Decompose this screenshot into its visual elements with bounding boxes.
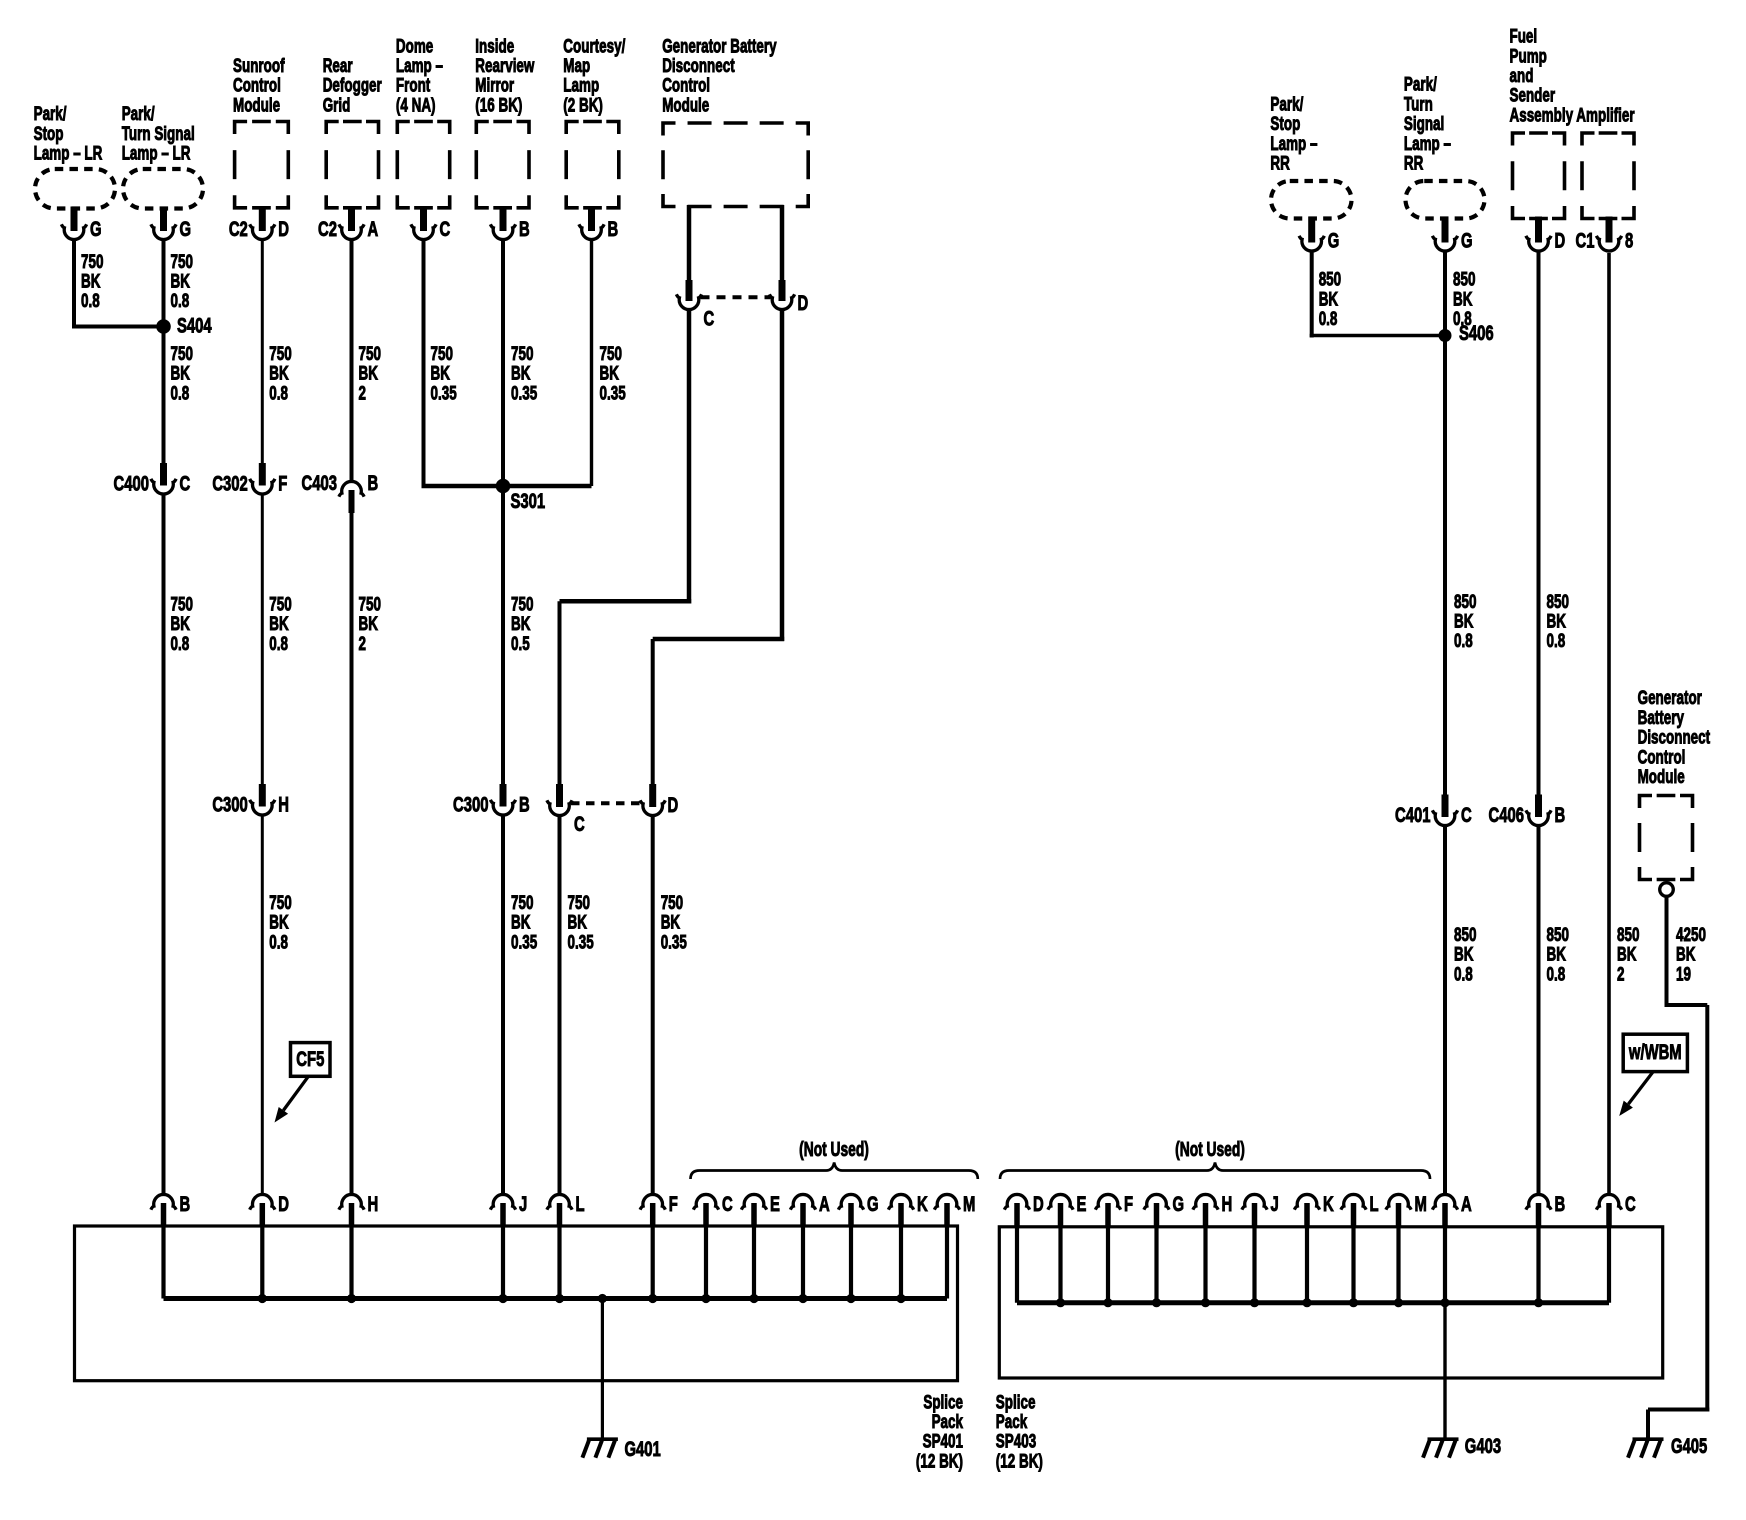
bus junction at pin D — [258, 1294, 267, 1303]
splice pack SP403 internal lead pin M — [1396, 1227, 1400, 1303]
wire: GBDCM pin C run — [687, 310, 692, 604]
dashed connector mating line C-D — [701, 295, 771, 299]
component: Generator Battery Disconnect Control Module (dashed box) — [663, 123, 808, 207]
wire label 850 BK 0.8 — [1319, 268, 1341, 330]
wire: 850 BK 0.8 to splice pack pin A — [1443, 826, 1447, 1194]
svg-text:B: B — [1555, 1191, 1566, 1215]
wire label 750 BK 0.8 — [171, 250, 193, 312]
wire: jog left — [560, 599, 692, 604]
wire: SP403 ground lead to G403 — [1443, 1303, 1446, 1439]
splice pack SP403 internal lead pin K — [1305, 1227, 1309, 1303]
splice pack SP401 internal lead pin D — [260, 1227, 264, 1299]
wire: 750 BK 0.5 below S301 — [501, 486, 505, 786]
splice pack SP401 pin G — [838, 1191, 878, 1227]
svg-text:C400: C400 — [114, 471, 149, 495]
connector C300 pin H — [212, 784, 289, 816]
wire label 750 BK 0.8 — [81, 250, 103, 312]
svg-text:Lamp – LR: Lamp – LR — [122, 142, 191, 164]
wire: 850 BK 2 from Amplifier to splice pack pin C — [1607, 253, 1611, 1194]
svg-text:0.8: 0.8 — [171, 632, 190, 654]
connector pin G of Park/Turn Signal Lamp - RR — [1432, 217, 1472, 253]
wire label 750 BK 0.35 — [511, 343, 537, 405]
svg-text:B: B — [519, 216, 530, 240]
wire: GBDCM pin D lead — [780, 205, 785, 282]
svg-text:0.8: 0.8 — [269, 632, 288, 654]
svg-text:C302: C302 — [212, 471, 247, 495]
bus junction at pin H — [1201, 1298, 1210, 1307]
svg-text:G405: G405 — [1671, 1433, 1707, 1457]
svg-text:L: L — [1370, 1191, 1379, 1215]
svg-text:Module: Module — [662, 94, 709, 116]
svg-text:0.8: 0.8 — [81, 290, 100, 312]
svg-text:0.8: 0.8 — [171, 290, 190, 312]
svg-text:CF5: CF5 — [296, 1046, 324, 1070]
svg-text:8: 8 — [1625, 228, 1633, 252]
ground G403 — [1423, 1439, 1459, 1458]
splice pack SP401 internal lead pin J — [501, 1227, 505, 1299]
svg-text:C: C — [440, 216, 451, 240]
bus junction at pin B — [1534, 1298, 1543, 1307]
svg-text:H: H — [368, 1191, 379, 1215]
splice pack SP403 internal lead pin J — [1252, 1227, 1256, 1303]
splice S406 — [1439, 329, 1452, 342]
component: Inside Rearview Mirror (dashed box) — [476, 122, 529, 208]
component: Courtesy/Map Lamp (dashed box) — [566, 122, 619, 208]
label: Park/Turn Signal Lamp - LR — [122, 103, 195, 165]
connector C1 pin 8 of Amplifier — [1576, 217, 1634, 253]
wire: down to ground G405 — [1646, 1410, 1650, 1438]
wire: 750 BK 2 from Rear Defogger Grid — [350, 241, 354, 481]
wire label 750 BK 0.35 — [600, 343, 626, 405]
connector C403 pin B — [339, 481, 364, 513]
ground G405 — [1628, 1439, 1664, 1458]
label: Generator Battery Disconnect Control Module (right) — [1638, 687, 1711, 788]
svg-text:w/WBM: w/WBM — [1628, 1039, 1682, 1063]
component: Generator Battery Disconnect Control Module (dashed box, right) — [1640, 796, 1693, 880]
bus junction at pin M — [1394, 1298, 1403, 1307]
svg-text:Module: Module — [233, 94, 280, 116]
splice pack SP403 internal lead pin E — [1058, 1227, 1062, 1303]
svg-text:G: G — [1328, 228, 1340, 252]
svg-text:M: M — [1415, 1191, 1427, 1215]
bus junction at pin K — [896, 1294, 905, 1303]
splice pack SP403 internal lead pin B — [1536, 1227, 1540, 1303]
bus junction at pin G — [1152, 1298, 1161, 1307]
splice pack SP401 internal lead pin L — [557, 1227, 561, 1299]
inline connector pin D (GBDCM) — [769, 280, 794, 310]
splice pack SP403 pin A — [1432, 1191, 1471, 1227]
splice pack SP401 internal lead pin F — [651, 1227, 655, 1299]
wire label 750 BK 0.8 — [171, 343, 193, 405]
splice pack SP403 internal lead pin H — [1203, 1227, 1207, 1303]
svg-text:K: K — [917, 1191, 928, 1215]
splice pack SP401 pin C — [693, 1191, 732, 1227]
label: Dome Lamp - Front (4 NA) — [396, 35, 443, 116]
splice pack SP403 pin D — [1004, 1191, 1043, 1227]
splice pack SP401 internal lead pin M — [945, 1227, 949, 1299]
bus junction at pin G — [846, 1294, 855, 1303]
svg-text:B: B — [368, 470, 379, 494]
svg-text:A: A — [819, 1191, 830, 1215]
wire: 750 BK 2 to splice pack pin H — [350, 513, 354, 1194]
splice pack SP403 pin J — [1242, 1191, 1279, 1227]
wire label 4250 BK 19 — [1676, 923, 1706, 985]
svg-text:C406: C406 — [1489, 802, 1524, 826]
component: Rear Defogger Grid (dashed box) — [326, 122, 378, 208]
svg-text:B: B — [608, 216, 619, 240]
wire: horizontal to S404 — [72, 325, 164, 329]
splice pack SP401 pin H — [339, 1191, 378, 1227]
wire: 750 BK 0.8 to splice pack pin B — [162, 495, 166, 1195]
svg-text:2: 2 — [359, 382, 366, 404]
wire: 850 BK 0.8 from Park/Turn Signal Lamp - RR — [1443, 252, 1447, 796]
svg-text:D: D — [798, 290, 809, 314]
connector pin B of Courtesy/Map Lamp — [579, 206, 618, 241]
splice pack SP401 internal lead pin A — [801, 1227, 805, 1299]
svg-text:2: 2 — [359, 632, 366, 654]
connector C302 pin F — [212, 463, 287, 495]
wire label 850 BK 0.8 — [1547, 923, 1569, 985]
splice pack SP401 internal lead pin C — [704, 1227, 708, 1299]
splice pack SP403 pin L — [1341, 1191, 1379, 1227]
svg-text:0.35: 0.35 — [568, 931, 594, 953]
svg-text:C300: C300 — [453, 792, 488, 816]
svg-text:B: B — [180, 1191, 191, 1215]
splice pack SP401 pin L — [547, 1191, 585, 1227]
wire: 750 BK 0.8 from Park/Turn Signal Lamp - LR through S404 — [162, 241, 166, 467]
svg-text:0.8: 0.8 — [1547, 963, 1566, 985]
svg-text:A: A — [1461, 1191, 1472, 1215]
component: Amplifier (dashed box) — [1582, 133, 1634, 219]
connector C2 pin A of Rear Defogger Grid — [318, 206, 378, 241]
svg-text:0.35: 0.35 — [431, 382, 457, 404]
splice pack SP403 internal lead pin A — [1443, 1227, 1447, 1303]
splice pack SP403 internal lead pin L — [1351, 1227, 1355, 1303]
splice pack SP403 pin H — [1193, 1191, 1232, 1227]
bus junction at pin K — [1302, 1298, 1311, 1307]
connector pin B of Inside Rearview Mirror — [490, 206, 529, 241]
bus junction at pin H — [347, 1294, 356, 1303]
svg-text:H: H — [278, 792, 289, 816]
svg-text:S404: S404 — [177, 313, 212, 337]
svg-text:S301: S301 — [511, 488, 546, 512]
wire: 750 BK 0.35 to splice pack pin J — [501, 816, 505, 1195]
connector pin G of Park/Turn Signal Lamp - LR — [151, 207, 191, 241]
splice S301 — [496, 479, 511, 494]
wire: SP401 ground lead to G401 — [601, 1299, 604, 1440]
svg-text:0.5: 0.5 — [511, 632, 530, 654]
svg-text:(2 BK): (2 BK) — [563, 94, 603, 116]
component: Fuel Pump and Sender Assembly (dashed box) — [1513, 133, 1565, 219]
wire: horizontal bus into S301 — [422, 484, 592, 489]
bus junction at pin C — [701, 1294, 710, 1303]
wire label 750 BK 0.35 — [511, 891, 537, 953]
wire: jog left — [653, 637, 785, 642]
svg-text:RR: RR — [1270, 152, 1289, 174]
splice pack SP401 pin D — [250, 1191, 289, 1227]
wire: jog right — [1665, 1003, 1708, 1007]
wire: 4250 BK 19 from GBDCM pigtail — [1665, 897, 1669, 1008]
splice pack SP401 internal lead pin E — [752, 1227, 756, 1299]
svg-text:J: J — [1271, 1191, 1279, 1215]
wire label 850 BK 2 — [1617, 923, 1639, 985]
wire: 750 BK 0.8 — [261, 495, 264, 787]
svg-text:C1: C1 — [1576, 228, 1595, 252]
wire label 750 BK 0.5 — [511, 593, 533, 655]
svg-text:D: D — [278, 216, 289, 240]
splice pack SP403 internal lead pin C — [1607, 1227, 1611, 1303]
svg-text:0.8: 0.8 — [1319, 308, 1338, 330]
splice pack SP401 pin M — [934, 1191, 975, 1227]
wire: down to inline connector C — [558, 601, 562, 786]
splice pack SP401 internal bus — [164, 1296, 948, 1301]
svg-text:Assembly Amplifier: Assembly Amplifier — [1510, 104, 1635, 126]
label: Generator Battery Disconnect Control Module — [662, 35, 777, 116]
splice pack SP401 internal lead pin G — [849, 1227, 853, 1299]
svg-text:C: C — [1461, 802, 1472, 826]
splice S404 — [156, 319, 171, 334]
svg-text:J: J — [519, 1191, 527, 1215]
splice pack SP401 pin B — [151, 1191, 190, 1227]
splice pack SP403 internal lead pin D — [1015, 1227, 1019, 1303]
splice pack SP401 internal lead pin K — [899, 1227, 903, 1299]
callout arrow w/WBM — [1619, 1072, 1653, 1116]
svg-text:F: F — [278, 471, 287, 495]
svg-text:(16 BK): (16 BK) — [475, 94, 522, 116]
svg-text:0.8: 0.8 — [1454, 630, 1473, 652]
svg-text:G: G — [90, 216, 102, 240]
component: Park/Stop Lamp - RR (dashed stadium) — [1271, 181, 1352, 219]
svg-text:G: G — [1173, 1191, 1185, 1215]
svg-text:0.35: 0.35 — [511, 931, 537, 953]
wire: 750 BK 0.8 from Sunroof Control Module — [261, 241, 264, 466]
bus junction at pin F — [648, 1294, 657, 1303]
connector pin G of Park/Stop Lamp - RR — [1299, 217, 1339, 253]
splice pack SP401 pin E — [741, 1191, 780, 1227]
wire label 850 BK 0.8 — [1453, 268, 1475, 330]
wire: 750 BK 0.35 from Courtesy/Map Lamp — [590, 241, 593, 487]
component: Park/Turn Signal Lamp - LR (dashed stadium) — [123, 169, 203, 209]
brace: not used pins SP403 — [1000, 1163, 1430, 1180]
brace: not used pins SP401 — [691, 1163, 978, 1180]
bus junction at pin A — [1440, 1298, 1449, 1307]
svg-text:Grid: Grid — [323, 94, 351, 116]
svg-text:B: B — [1555, 802, 1566, 826]
wire: 750 BK 0.35 from Inside Rearview Mirror — [501, 241, 505, 487]
svg-text:F: F — [669, 1191, 678, 1215]
svg-text:C403: C403 — [302, 470, 337, 494]
svg-text:C2: C2 — [318, 216, 337, 240]
splice pack SP401 pin F — [640, 1191, 678, 1227]
svg-text:0.8: 0.8 — [269, 382, 288, 404]
bus junction at pin J — [1250, 1298, 1259, 1307]
bus junction to ground lead — [598, 1294, 607, 1303]
svg-text:C: C — [1625, 1191, 1636, 1215]
svg-text:E: E — [1077, 1191, 1087, 1215]
wire: GBDCM pin D run — [780, 310, 785, 641]
callout box CF5 — [291, 1043, 331, 1077]
svg-text:(Not Used): (Not Used) — [1175, 1137, 1245, 1160]
ground G401 — [582, 1439, 618, 1458]
label: Park/Turn Signal Lamp - RR — [1404, 73, 1451, 174]
svg-text:G401: G401 — [625, 1436, 661, 1460]
svg-text:D: D — [278, 1191, 289, 1215]
wire label 750 BK 0.8 — [269, 891, 291, 953]
inline connector pin C (lower) — [547, 784, 572, 816]
svg-text:D: D — [1555, 228, 1566, 252]
wire: down to inline connector D — [651, 639, 655, 786]
dashed connector mating line C-D (lower) — [571, 801, 641, 805]
connector C2 pin D of Sunroof Control Module — [229, 206, 289, 241]
splice pack SP403 outline — [999, 1227, 1662, 1378]
svg-text:0.8: 0.8 — [1547, 630, 1566, 652]
splice pack SP403 pin F — [1095, 1191, 1133, 1227]
wire label 750 BK 0.35 — [431, 343, 457, 405]
label: Splice Pack SP403 (12 BK) — [996, 1391, 1043, 1472]
svg-text:(4 NA): (4 NA) — [396, 94, 436, 116]
svg-text:M: M — [963, 1191, 975, 1215]
wire: GBDCM pin C lead — [687, 205, 692, 282]
svg-text:B: B — [519, 792, 530, 816]
svg-text:K: K — [1323, 1191, 1334, 1215]
svg-text:S406: S406 — [1459, 320, 1494, 344]
svg-text:D: D — [668, 792, 679, 816]
svg-text:RR: RR — [1404, 152, 1423, 174]
component: Park/Turn Signal Lamp - RR (dashed stadium) — [1406, 181, 1485, 219]
splice pack SP403 internal lead pin F — [1106, 1227, 1110, 1303]
wire label 750 BK 0.8 — [171, 593, 193, 655]
connector pin C of Dome Lamp — [411, 206, 450, 241]
bus junction at pin L — [555, 1294, 564, 1303]
splice pack SP401 internal lead pin H — [349, 1227, 353, 1299]
bus junction at pin E — [749, 1294, 758, 1303]
pigtail ring terminal of GBDCM — [1660, 883, 1674, 897]
splice pack SP401 pin K — [888, 1191, 928, 1227]
svg-text:G: G — [1461, 228, 1473, 252]
svg-text:2: 2 — [1617, 963, 1624, 985]
svg-text:0.35: 0.35 — [511, 382, 537, 404]
connector C401 pin C — [1395, 795, 1472, 827]
inline connector pin C (GBDCM) — [676, 280, 701, 310]
connector C400 pin C — [114, 463, 191, 495]
label: Inside Rearview Mirror (16 BK) — [475, 35, 535, 116]
svg-text:C: C — [574, 811, 585, 835]
svg-text:(12 BK): (12 BK) — [996, 1450, 1043, 1472]
svg-text:Lamp – LR: Lamp – LR — [34, 142, 103, 164]
label: Splice Pack SP401 (12 BK) — [916, 1391, 964, 1472]
wire label 750 BK 0.8 — [269, 593, 291, 655]
wire: 850 BK 0.8 from Park/Stop Lamp - RR — [1310, 252, 1314, 338]
wire label 750 BK 0.35 — [661, 891, 687, 953]
label: Courtesy/Map Lamp (2 BK) — [563, 35, 625, 116]
splice pack SP403 internal bus — [1017, 1300, 1609, 1305]
splice pack SP403 internal lead pin G — [1154, 1227, 1158, 1303]
svg-text:F: F — [1124, 1191, 1133, 1215]
svg-text:0.8: 0.8 — [269, 931, 288, 953]
svg-text:Module: Module — [1638, 766, 1685, 788]
svg-text:G403: G403 — [1465, 1433, 1501, 1457]
wire label 750 BK 2 — [359, 343, 381, 405]
splice pack SP403 pin K — [1294, 1191, 1334, 1227]
label: Fuel Pump and Sender Assembly Amplifier — [1510, 25, 1635, 126]
wire: jog left to G405 — [1648, 1408, 1709, 1412]
wire: 750 BK 0.8 to splice pack pin D — [261, 816, 264, 1195]
svg-text:C401: C401 — [1395, 802, 1430, 826]
splice pack SP401 internal lead pin B — [161, 1227, 165, 1299]
svg-text:0.8: 0.8 — [1454, 963, 1473, 985]
svg-text:(Not Used): (Not Used) — [799, 1137, 869, 1160]
svg-text:C2: C2 — [229, 216, 248, 240]
svg-text:0.35: 0.35 — [600, 382, 626, 404]
svg-text:C: C — [180, 471, 191, 495]
wire: 750 BK 0.35 to splice pack pin F — [651, 816, 655, 1194]
splice pack SP403 pin B — [1526, 1191, 1565, 1227]
component: Park/Stop Lamp - LR (dashed stadium) — [35, 169, 115, 209]
bus junction at pin L — [1349, 1298, 1358, 1307]
splice pack SP403 pin C — [1596, 1191, 1635, 1227]
label: Rear Defogger Grid — [323, 55, 382, 117]
wire label 750 BK 0.35 — [568, 891, 594, 953]
svg-text:C300: C300 — [212, 792, 247, 816]
svg-text:(12 BK): (12 BK) — [916, 1450, 963, 1472]
connector pin G of Park/Stop Lamp - LR — [61, 207, 101, 241]
wire: 850 BK 0.8 from Fuel Pump and Sender Assembly — [1537, 252, 1541, 796]
connector pin D of Fuel Pump and Sender Assembly — [1526, 217, 1565, 253]
label: Park/Stop Lamp - LR — [34, 103, 103, 165]
bus junction at pin F — [1103, 1298, 1112, 1307]
wire: 850 BK 0.8 to splice pack pin B — [1537, 826, 1541, 1194]
svg-text:0.8: 0.8 — [171, 382, 190, 404]
splice pack SP401 outline — [75, 1226, 958, 1381]
callout arrow CF5 — [275, 1076, 309, 1122]
svg-text:G: G — [180, 216, 192, 240]
svg-text:L: L — [576, 1191, 585, 1215]
svg-text:H: H — [1222, 1191, 1233, 1215]
svg-text:D: D — [1033, 1191, 1044, 1215]
bus junction at pin A — [798, 1294, 807, 1303]
svg-text:0.35: 0.35 — [661, 931, 687, 953]
svg-text:A: A — [368, 216, 379, 240]
splice pack SP401 pin J — [490, 1191, 527, 1227]
splice pack SP403 pin E — [1048, 1191, 1087, 1227]
callout box w/WBM — [1623, 1034, 1687, 1071]
svg-text:19: 19 — [1676, 963, 1691, 985]
inline connector pin D (lower) — [640, 784, 665, 816]
wire label 750 BK 2 — [359, 593, 381, 655]
wire: down right margin — [1705, 1005, 1709, 1412]
splice pack SP403 pin M — [1386, 1191, 1427, 1227]
svg-text:C: C — [722, 1191, 733, 1215]
wire: 750 BK 0.35 from Dome Lamp — [422, 241, 426, 489]
label: Park/Stop Lamp - RR — [1270, 93, 1317, 174]
connector C300 pin B — [453, 784, 530, 816]
wire: 750 BK 0.35 to splice pack pin L — [558, 816, 562, 1194]
splice pack SP401 pin A — [790, 1191, 829, 1227]
wire: 750 BK 0.8 from Park/Stop Lamp - LR — [72, 241, 76, 329]
svg-text:E: E — [770, 1191, 780, 1215]
label: Sunroof Control Module — [233, 55, 285, 117]
wire: horizontal to S406 — [1310, 334, 1445, 338]
wire label 750 BK 0.8 — [269, 343, 291, 405]
splice pack SP403 pin G — [1144, 1191, 1184, 1227]
component: Dome Lamp - Front (dashed box) — [397, 122, 449, 208]
wire label 850 BK 0.8 — [1454, 590, 1476, 652]
bus junction at pin E — [1056, 1298, 1065, 1307]
connector C406 pin B — [1489, 795, 1566, 827]
bus junction at pin J — [498, 1294, 507, 1303]
svg-text:G: G — [867, 1191, 879, 1215]
component: Sunroof Control Module (dashed box) — [235, 122, 289, 208]
